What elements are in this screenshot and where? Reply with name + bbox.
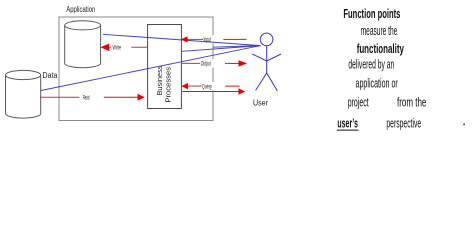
read arrow right segment — [104, 96, 138, 98]
svg-text:User: User — [253, 99, 268, 108]
input right segment — [223, 38, 246, 40]
svg-text:Data: Data — [43, 71, 58, 80]
query return arrowhead — [239, 88, 246, 94]
svg-text:Read: Read — [83, 96, 90, 102]
sight line to internal cylinder — [103, 34, 260, 45]
svg-text:Processes: Processes — [163, 67, 172, 103]
sight line to business processes edge — [182, 46, 260, 52]
query arrow line — [188, 85, 202, 87]
user's underline — [337, 129, 359, 131]
output label bg — [200, 59, 215, 67]
svg-text:application or: application or — [356, 76, 398, 90]
svg-text:functionality: functionality — [357, 42, 404, 56]
write arrowhead — [100, 44, 109, 52]
input arrow line — [187, 38, 203, 40]
svg-text:Output: Output — [201, 62, 211, 68]
read arrow left segment — [40, 96, 79, 98]
svg-text:delivered by an: delivered by an — [348, 57, 394, 71]
svg-text:Input: Input — [204, 38, 212, 44]
query right segment — [225, 85, 239, 87]
svg-text:project: project — [348, 95, 369, 109]
user left arm — [252, 54, 266, 61]
svg-text:Application: Application — [66, 5, 95, 14]
text line 7 period — [463, 124, 465, 126]
query label bg — [202, 82, 215, 90]
input label bg — [199, 35, 216, 43]
user left leg — [256, 73, 267, 90]
svg-text:Write: Write — [113, 46, 122, 52]
sight line to application edge — [213, 46, 260, 48]
svg-text:Query: Query — [202, 84, 212, 90]
svg-text:measure the: measure the — [361, 24, 398, 38]
output right segment — [225, 62, 239, 64]
user head — [260, 33, 273, 46]
sight line to external data cylinder — [41, 46, 260, 91]
external data cylinder — [6, 75, 41, 118]
svg-text:perspective: perspective — [386, 117, 421, 131]
svg-text:from the: from the — [397, 95, 426, 109]
write arrow line — [109, 46, 147, 48]
write label bg — [111, 43, 132, 52]
query arrowhead — [181, 83, 188, 89]
svg-text:user’s: user’s — [337, 117, 358, 131]
output arrowhead — [239, 60, 248, 66]
svg-text:Function points: Function points — [343, 7, 400, 21]
query return arrow — [182, 91, 239, 93]
user right arm — [267, 54, 281, 61]
internal data store cylinder — [65, 25, 101, 67]
business processes box — [148, 25, 182, 109]
user body — [266, 46, 268, 73]
application box — [59, 17, 213, 121]
user right leg — [267, 73, 278, 91]
input arrowhead — [181, 36, 188, 42]
output arrow line — [181, 62, 200, 64]
read arrowhead — [138, 94, 145, 101]
